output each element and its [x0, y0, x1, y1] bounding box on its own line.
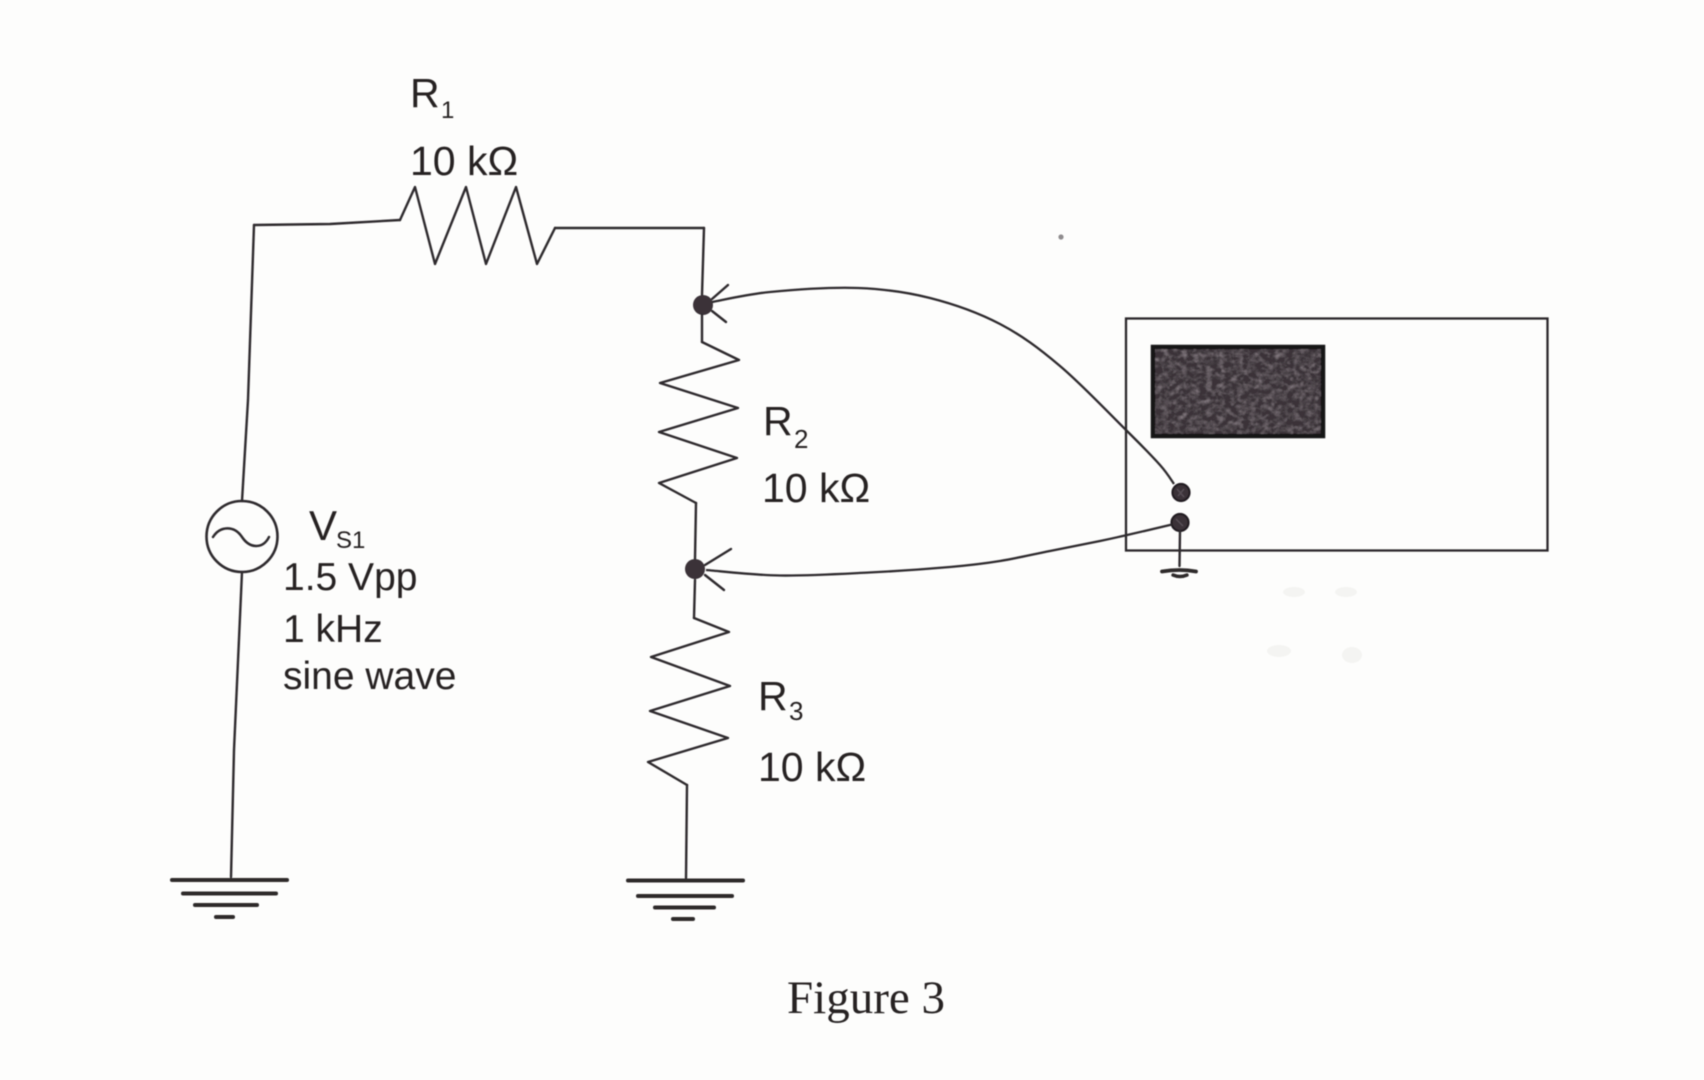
svg-text:1: 1	[441, 97, 454, 124]
wire: R2 to node B	[695, 503, 696, 559]
resistor R1	[400, 187, 555, 264]
wire: curved probe lead from node B to scope terminal 2	[706, 525, 1172, 576]
node B (junction R2/R3, scope probe 2)	[685, 559, 705, 579]
svg-text:R: R	[763, 398, 793, 444]
voltage source VS1 (circle)	[207, 501, 278, 572]
wire: source top to left corner	[242, 225, 254, 501]
svg-text:10 kΩ: 10 kΩ	[762, 465, 870, 511]
label VS1	[309, 502, 365, 554]
resistor R3	[648, 618, 730, 785]
sine symbol inside VS1	[213, 528, 269, 546]
resistor R2	[659, 342, 739, 503]
probe tick upper at node B	[705, 549, 731, 565]
svg-text:Figure 3: Figure 3	[787, 972, 945, 1024]
svg-text:10 kΩ: 10 kΩ	[758, 744, 866, 790]
wire: R1 to right corner	[555, 227, 704, 229]
wire: source bottom to ground	[231, 572, 242, 877]
wire: terminal 2 to scope ground	[1178, 531, 1181, 566]
svg-text:sine wave: sine wave	[283, 655, 456, 698]
wire: top horizontal to R1	[254, 220, 400, 225]
scan fleck dot	[1058, 234, 1063, 239]
svg-text:R: R	[410, 70, 440, 116]
node A (junction R1/R2, scope probe 1)	[693, 295, 713, 315]
oscilloscope body U1	[1126, 319, 1548, 551]
ground (scope)	[1162, 570, 1196, 577]
label R1	[410, 70, 454, 124]
svg-text:V: V	[309, 502, 337, 549]
scan smudge b	[1335, 587, 1357, 597]
scope input terminal 2	[1172, 514, 1189, 531]
probe tick lower at node B	[705, 575, 724, 590]
ground (below R3)	[628, 881, 743, 920]
svg-text:3: 3	[789, 696, 803, 726]
svg-text:10 kΩ: 10 kΩ	[410, 138, 518, 184]
wire: curved probe lead from node A to scope terminal 1	[712, 288, 1174, 484]
svg-text:R: R	[758, 673, 788, 719]
oscilloscope screen	[1153, 347, 1323, 436]
scan smudge c	[1267, 645, 1291, 657]
probe tick lower at node A	[712, 311, 726, 322]
scope input terminal 1	[1173, 484, 1190, 501]
wire: node A to R2	[701, 315, 703, 342]
probe tick upper at node A	[712, 285, 728, 299]
label R2	[763, 398, 808, 454]
wire: node B to R3	[694, 580, 695, 618]
svg-text:1 kHz: 1 kHz	[283, 608, 383, 651]
svg-text:S1: S1	[336, 527, 365, 554]
scan smudge d	[1342, 647, 1362, 663]
wire: R3 to ground	[686, 785, 687, 878]
label R3	[758, 673, 803, 726]
ground (below source VS1)	[172, 880, 287, 917]
svg-text:2: 2	[794, 424, 808, 454]
svg-text:1.5 Vpp: 1.5 Vpp	[283, 556, 417, 599]
wire: right vertical down to node A	[702, 228, 704, 295]
scan smudge a	[1283, 587, 1305, 597]
